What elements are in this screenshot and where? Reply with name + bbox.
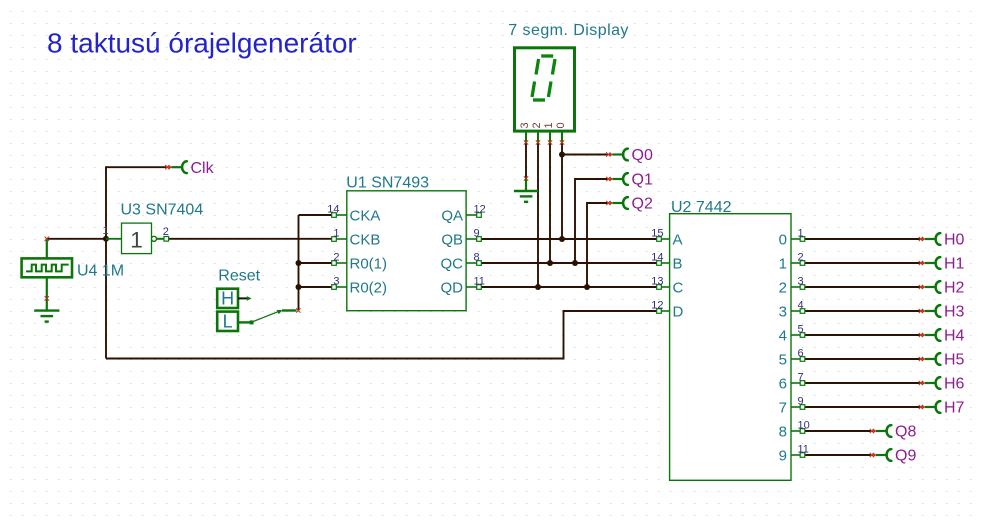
display pin 2 stub bbox=[537, 131, 539, 142]
U1 pin 9 (QB) stub bbox=[466, 238, 479, 240]
ground under display bbox=[514, 191, 538, 202]
wire to CKA pin bbox=[299, 214, 335, 216]
switch H contact box bbox=[217, 289, 238, 308]
U1 pin 14 (CKA) stub bbox=[334, 214, 347, 216]
U1 pin 12 (QA) stub bbox=[466, 214, 479, 216]
7 segment digit 0 bbox=[532, 56, 555, 100]
svg-text:U3 SN7404: U3 SN7404 bbox=[121, 202, 204, 219]
svg-text:Q0: Q0 bbox=[632, 147, 653, 164]
U2 pin 4 square bbox=[800, 309, 805, 314]
wire display pin1 to QC net bbox=[549, 143, 551, 264]
wire terminal Q1 to QC net bbox=[575, 179, 607, 263]
display ground stub bbox=[525, 179, 527, 192]
terminal H6 bbox=[919, 376, 965, 393]
svg-text:15: 15 bbox=[651, 228, 663, 240]
svg-text:9: 9 bbox=[798, 396, 804, 408]
wire U2 output 8 to Q8 bbox=[805, 430, 871, 432]
svg-text:11: 11 bbox=[798, 444, 809, 456]
U2 pin 13 square bbox=[657, 285, 662, 290]
svg-text:7 segm. Display: 7 segm. Display bbox=[508, 22, 629, 39]
svg-text:12: 12 bbox=[651, 300, 663, 312]
svg-text:3: 3 bbox=[519, 122, 531, 128]
wire terminal Q2 to QD net bbox=[587, 203, 607, 287]
U1 pin 2 square bbox=[332, 261, 337, 266]
U2 pin 5 (output 4) stub bbox=[791, 334, 803, 336]
switch L contact box bbox=[217, 312, 238, 331]
U1 pin 3 square bbox=[332, 285, 337, 290]
wire U2 output 9 to Q9 bbox=[805, 454, 871, 456]
inverter output pin square bbox=[164, 237, 169, 242]
connection x U4 bottom bbox=[45, 296, 49, 300]
terminal H0 bbox=[919, 232, 965, 249]
connection x display pin 0 bbox=[560, 140, 564, 144]
terminal Q2 bbox=[606, 196, 653, 213]
svg-text:9: 9 bbox=[474, 228, 480, 240]
svg-text:QD: QD bbox=[441, 279, 464, 296]
connection x U4 top bbox=[45, 237, 49, 241]
junction pin1 / QC bbox=[547, 260, 553, 266]
svg-text:1: 1 bbox=[333, 228, 339, 240]
svg-text:CKB: CKB bbox=[350, 231, 381, 248]
svg-text:2: 2 bbox=[531, 122, 543, 128]
U2 pin 4 (output 3) stub bbox=[791, 310, 803, 312]
svg-text:R0(2): R0(2) bbox=[350, 279, 388, 296]
svg-text:14: 14 bbox=[651, 252, 663, 264]
svg-text:2: 2 bbox=[779, 279, 787, 296]
svg-text:4: 4 bbox=[779, 327, 787, 344]
svg-text:H5: H5 bbox=[944, 352, 965, 369]
svg-text:12: 12 bbox=[474, 204, 486, 216]
terminal H3 bbox=[919, 304, 965, 321]
junction reset bus / R0(1) bbox=[296, 260, 302, 266]
svg-text:H4: H4 bbox=[944, 328, 965, 345]
U1 pin 12 square bbox=[477, 213, 482, 218]
U2 pin 3 (output 2) stub bbox=[791, 286, 803, 288]
U2 pin 14 square bbox=[657, 261, 662, 266]
wire to terminal Q0 bbox=[562, 154, 607, 156]
U1 pin 11 (QD) stub bbox=[466, 286, 479, 288]
svg-text:3: 3 bbox=[779, 303, 787, 320]
U1 pin 9 square bbox=[477, 237, 482, 242]
svg-text:C: C bbox=[673, 279, 684, 296]
switch H contact arrow bbox=[247, 296, 252, 301]
wire U2 output 1 to H1 bbox=[805, 262, 920, 264]
U1 pin 14 square bbox=[332, 213, 337, 218]
U2 pin 1 square bbox=[800, 237, 805, 242]
wire U2 output 3 to H3 bbox=[805, 310, 920, 312]
svg-text:H3: H3 bbox=[944, 304, 965, 321]
U1 pin 1 (CKB) stub bbox=[334, 238, 347, 240]
svg-text:2: 2 bbox=[333, 252, 339, 264]
inverter U3 body bbox=[122, 223, 152, 254]
connection x display pin 2 bbox=[536, 140, 540, 144]
terminal H2 bbox=[919, 280, 965, 297]
U2 pin 2 square bbox=[800, 261, 805, 266]
wire U2 output 5 to H5 bbox=[805, 358, 920, 360]
connection x display pin 3 bbox=[524, 140, 528, 144]
svg-text:H1: H1 bbox=[944, 256, 965, 273]
junction Q0 branch bbox=[559, 152, 565, 158]
wire U2 output 2 to H2 bbox=[805, 286, 920, 288]
svg-text:H: H bbox=[221, 289, 234, 309]
wire QB to A bbox=[479, 238, 657, 240]
U4 bottom pin stub bbox=[46, 277, 48, 310]
terminal H5 bbox=[919, 352, 965, 369]
wire to R0(1) pin bbox=[299, 262, 335, 264]
U2 pin 11 square bbox=[800, 453, 805, 458]
svg-text:QC: QC bbox=[441, 255, 464, 272]
wire to R0(2) pin bbox=[299, 286, 335, 288]
U1 pin 11 square bbox=[477, 285, 482, 290]
svg-text:6: 6 bbox=[779, 375, 787, 392]
wire inverter output to CKB bbox=[169, 238, 334, 240]
svg-text:1: 1 bbox=[798, 228, 804, 240]
svg-text:5: 5 bbox=[798, 324, 804, 336]
svg-text:1: 1 bbox=[102, 225, 108, 237]
wire display pin3 down bbox=[525, 143, 527, 179]
terminal Q9 bbox=[870, 448, 917, 465]
junction Q1 / QC bbox=[572, 260, 578, 266]
svg-text:2: 2 bbox=[798, 252, 804, 264]
wire display pin2 to QD net bbox=[537, 143, 539, 288]
terminal H1 bbox=[919, 256, 965, 273]
U1 pin 2 (R0(1)) stub bbox=[334, 262, 347, 264]
display pin 3 stub bbox=[525, 131, 527, 142]
U2 pin 9 square bbox=[800, 405, 805, 410]
wire left vertical (Clk node down to bottom rail) bbox=[105, 166, 107, 358]
switch H contact stub bbox=[238, 297, 248, 299]
svg-text:8: 8 bbox=[779, 423, 787, 440]
switch L contact square bbox=[250, 320, 254, 324]
svg-text:H0: H0 bbox=[944, 232, 965, 249]
svg-text:3: 3 bbox=[798, 276, 804, 288]
svg-text:2: 2 bbox=[163, 226, 169, 238]
U1 pin 8 square bbox=[477, 261, 482, 266]
display pin 0 stub bbox=[561, 131, 563, 142]
U2 pin 6 square bbox=[800, 357, 805, 362]
wire Clk horizontal bbox=[106, 166, 167, 168]
terminal Q1 bbox=[606, 172, 653, 189]
svg-text:U4 1M: U4 1M bbox=[77, 263, 124, 280]
U2 pin 7 (output 6) stub bbox=[791, 382, 803, 384]
wire U2 output 6 to H6 bbox=[805, 382, 920, 384]
wire reset vertical bus bbox=[298, 215, 300, 311]
connection x display ground bbox=[524, 176, 528, 180]
connection x switch to reset bus bbox=[296, 308, 300, 312]
junction pin0 / QB bbox=[559, 236, 565, 242]
svg-text:6: 6 bbox=[798, 348, 804, 360]
U2 pin 15 square bbox=[657, 237, 662, 242]
svg-text:Q9: Q9 bbox=[895, 448, 916, 465]
U1 pin 8 (QC) stub bbox=[466, 262, 479, 264]
junction reset bus / R0(2) bbox=[296, 284, 302, 290]
svg-text:L: L bbox=[223, 312, 233, 332]
U2 pin 10 square bbox=[800, 429, 805, 434]
connection x display pin 1 bbox=[548, 140, 552, 144]
wire U2 output 4 to H4 bbox=[805, 334, 920, 336]
U2 pin 12 (D) stub bbox=[659, 310, 670, 312]
ground under U4 bbox=[34, 311, 59, 322]
inverter U3 input stub bbox=[106, 238, 122, 240]
svg-text:11: 11 bbox=[474, 276, 485, 288]
IC U2 7442 body bbox=[670, 214, 791, 481]
wire QC to B bbox=[479, 262, 657, 264]
svg-text:3: 3 bbox=[333, 276, 339, 288]
U2 pin 15 (A) stub bbox=[659, 238, 670, 240]
junction Q2 / QD bbox=[584, 284, 590, 290]
wire U4 output to junction bbox=[47, 238, 106, 240]
switch L contact stub bbox=[238, 321, 250, 323]
U2 pin 7 square bbox=[800, 381, 805, 386]
U2 pin 1 (output 0) stub bbox=[791, 238, 803, 240]
U2 pin 10 (output 8) stub bbox=[791, 430, 803, 432]
svg-text:7: 7 bbox=[798, 372, 804, 384]
svg-text:4: 4 bbox=[798, 300, 804, 312]
junction clock node bbox=[103, 236, 109, 242]
svg-text:A: A bbox=[673, 231, 683, 248]
U4 top pin stub bbox=[46, 239, 48, 259]
wire U2 output 7 to H7 bbox=[805, 406, 920, 408]
switch arm bbox=[252, 311, 279, 322]
inverter U3 output bubble bbox=[152, 236, 157, 241]
U4 square wave symbol bbox=[26, 265, 69, 272]
svg-text:0: 0 bbox=[555, 122, 567, 128]
U1 pin 3 (R0(2)) stub bbox=[334, 286, 347, 288]
U2 pin 9 (output 7) stub bbox=[791, 406, 803, 408]
display pin 1 stub bbox=[549, 131, 551, 142]
svg-text:QB: QB bbox=[441, 231, 463, 248]
U2 pin 13 (C) stub bbox=[659, 286, 670, 288]
wire bottom rail to U2 D input bbox=[106, 311, 657, 359]
svg-text:7: 7 bbox=[779, 399, 787, 416]
svg-text:QA: QA bbox=[441, 207, 463, 224]
voltage source U4 1M body bbox=[22, 258, 72, 277]
svg-text:H2: H2 bbox=[944, 280, 965, 297]
terminal H4 bbox=[919, 328, 965, 345]
terminal H7 bbox=[919, 400, 965, 417]
svg-text:Clk: Clk bbox=[191, 160, 215, 177]
junction pin2 / QD bbox=[535, 284, 541, 290]
svg-text:8 taktusú órajelgenerátor: 8 taktusú órajelgenerátor bbox=[47, 28, 357, 59]
U2 pin 11 (output 9) stub bbox=[791, 454, 803, 456]
switch arm arrowhead bbox=[277, 310, 283, 314]
wire U2 output 0 to H0 bbox=[805, 238, 920, 240]
svg-text:H7: H7 bbox=[944, 400, 965, 417]
7 segment display body bbox=[515, 48, 575, 131]
U1 pin 1 square bbox=[332, 237, 337, 242]
U2 pin 2 (output 1) stub bbox=[791, 262, 803, 264]
svg-text:U1 SN7493: U1 SN7493 bbox=[346, 175, 429, 192]
svg-text:5: 5 bbox=[779, 351, 787, 368]
terminal Q8 bbox=[870, 424, 917, 441]
switch common wire bbox=[282, 309, 297, 311]
U2 pin 6 (output 5) stub bbox=[791, 358, 803, 360]
svg-text:Q2: Q2 bbox=[632, 196, 653, 213]
svg-text:D: D bbox=[673, 303, 684, 320]
svg-text:14: 14 bbox=[327, 204, 339, 216]
U2 pin 14 (B) stub bbox=[659, 262, 670, 264]
svg-text:1: 1 bbox=[779, 255, 787, 272]
svg-text:0: 0 bbox=[779, 231, 787, 248]
wire QD to C bbox=[479, 286, 657, 288]
U2 pin 3 square bbox=[800, 285, 805, 290]
U2 pin 12 square bbox=[657, 309, 662, 314]
terminal Q0 bbox=[606, 147, 653, 164]
U2 pin 5 square bbox=[800, 333, 805, 338]
svg-text:13: 13 bbox=[651, 276, 663, 288]
svg-text:Q1: Q1 bbox=[632, 172, 653, 189]
IC U1 SN7493 body bbox=[347, 191, 466, 311]
inverter U3 output stub bbox=[157, 238, 165, 240]
svg-text:B: B bbox=[673, 255, 683, 272]
svg-text:R0(1): R0(1) bbox=[350, 255, 388, 272]
svg-text:9: 9 bbox=[779, 447, 787, 464]
svg-text:CKA: CKA bbox=[350, 207, 381, 224]
svg-text:1: 1 bbox=[543, 122, 555, 128]
svg-text:H6: H6 bbox=[944, 376, 965, 393]
terminal Clk bbox=[165, 160, 214, 177]
svg-text:Q8: Q8 bbox=[895, 424, 916, 441]
svg-text:1: 1 bbox=[130, 228, 143, 253]
svg-text:Reset: Reset bbox=[218, 268, 260, 285]
wire display pin0 to QB net bbox=[561, 143, 563, 240]
svg-text:10: 10 bbox=[798, 420, 810, 432]
svg-text:8: 8 bbox=[474, 252, 480, 264]
